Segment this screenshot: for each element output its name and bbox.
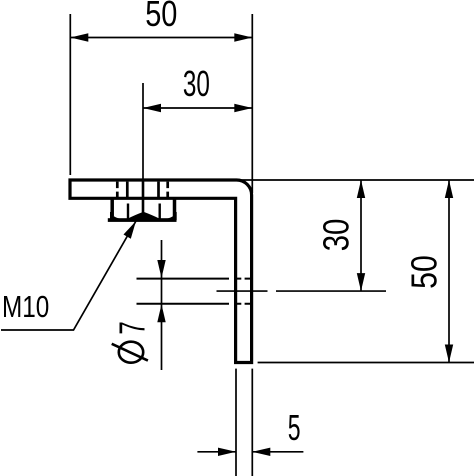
bracket outline: [70, 180, 252, 363]
dimension line 5 bottom right segment: [252, 451, 303, 453]
extension line right (x=252.3): [251, 14, 253, 193]
arrow 50 top right: [234, 33, 252, 41]
arrow 30 right up: [357, 180, 365, 198]
leader line M10: [1, 221, 136, 330]
dimension line 50 right: [448, 180, 450, 363]
hole center line vertical lower part: [142, 180, 145, 217]
thread line left (broken): [117, 182, 167, 197]
dimension line 50 top: [70, 37, 252, 39]
leg hole bottom edge line: [137, 303, 251, 305]
extension line top right horizontal: [237, 179, 474, 181]
nut left corner edge: [110, 199, 114, 216]
svg-text:30: 30: [316, 219, 357, 252]
leader arrowhead M10: [124, 221, 137, 239]
leg hole top edge line: [137, 278, 251, 280]
extension line bottom left (x=236): [235, 369, 237, 476]
arrow 50 right up: [445, 180, 453, 198]
arrow 30 top left: [143, 104, 161, 112]
tap hole line left: [126, 182, 129, 197]
leg hole center line horizontal: [217, 290, 387, 292]
arrow dia up: [157, 304, 165, 322]
dimension line 30 top: [143, 107, 252, 109]
label dia symbol: [119, 342, 143, 363]
svg-text:30: 30: [183, 63, 210, 104]
nut chamfer left: [111, 212, 123, 220]
nut left face edge: [127, 204, 129, 220]
arrow 50 right down: [445, 345, 453, 363]
svg-text:50: 50: [403, 255, 444, 289]
label dia slash: [112, 344, 148, 361]
arrow 5 right: [252, 448, 270, 456]
arrow 50 top left: [70, 33, 88, 41]
svg-text:50: 50: [145, 0, 177, 34]
extension line left (x=70): [69, 14, 71, 175]
nut chamfer middle peak: [127, 212, 161, 219]
nut chamfer right: [165, 212, 177, 220]
dimension line 5 bottom left segment: [197, 451, 236, 453]
extension line bottom right horizontal: [258, 362, 474, 364]
dimension line 30 right: [360, 180, 362, 291]
nut right corner edge: [173, 199, 177, 216]
arrow 5 left: [218, 448, 236, 456]
nut bottom face: [108, 218, 177, 222]
tap hole line right: [157, 182, 160, 197]
svg-text:7: 7: [111, 321, 152, 334]
svg-text:M10: M10: [2, 289, 49, 324]
arrow 30 top right: [234, 104, 252, 112]
svg-text:5: 5: [288, 407, 301, 448]
thread line right (broken): [166, 182, 169, 197]
extension line bottom right (x=252.3): [251, 369, 253, 476]
arrow dia down: [157, 260, 165, 278]
nut right face edge: [158, 204, 160, 220]
diameter dimension line vertical: [161, 240, 163, 370]
arrow 30 right down: [357, 273, 365, 291]
hole center line vertical: [142, 83, 144, 180]
